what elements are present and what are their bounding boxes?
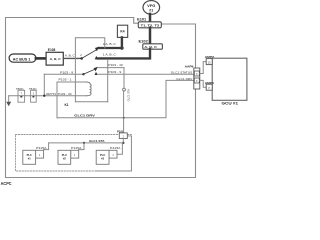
aux contact arrow upper — [94, 67, 98, 72]
svg-text:AAP9: AAP9 — [185, 64, 194, 68]
svg-text:3R7N: 3R7N — [46, 92, 56, 96]
arrow at right P103-9 wire end — [95, 72, 98, 75]
pin box P101 — [119, 133, 127, 139]
wire P101 to STA bus — [122, 139, 124, 143]
pin K — [194, 78, 199, 83]
connector AAP9 box — [194, 68, 200, 89]
svg-text:GLC1 STA: GLC1 STA — [126, 89, 130, 102]
svg-text:AC BUS 1: AC BUS 1 — [13, 57, 31, 61]
svg-text:GLC1 STA: GLC1 STA — [89, 139, 105, 143]
svg-text:#1: #1 — [149, 9, 153, 13]
PLC #3 box — [96, 150, 109, 164]
wire GLC1 DRV horizontal — [57, 80, 194, 117]
pin box PLC3 — [109, 150, 117, 158]
wire P103-1 — [57, 81, 86, 83]
svg-text:K1: K1 — [65, 103, 69, 107]
svg-text:P415A: P415A — [110, 146, 121, 150]
relay K1 box right edge wire — [107, 59, 109, 101]
svg-text:GCU #1: GCU #1 — [222, 102, 239, 106]
wire A,B,C from E108 to node 2 — [63, 57, 81, 59]
svg-text:1 A, B, C: 1 A, B, C — [103, 52, 116, 56]
svg-text:E101: E101 — [137, 18, 146, 22]
svg-text:GLC1 DRV: GLC1 DRV — [176, 77, 192, 81]
wire P103-9 left — [44, 73, 83, 75]
wire feeder VFG to E101 (thick) — [149, 14, 152, 22]
wire riser PLC2 — [79, 143, 84, 150]
wire GLC1 STA bus — [49, 142, 124, 144]
svg-text:GLC1 DRV: GLC1 DRV — [74, 113, 96, 117]
svg-text:E108: E108 — [48, 48, 56, 52]
splice circle on GLC1 STA — [123, 88, 126, 91]
svg-text:P315A: P315A — [36, 146, 47, 150]
pin box PLC1 — [36, 150, 44, 158]
svg-text:PLC: PLC — [27, 153, 32, 157]
svg-text:K4: K4 — [120, 30, 124, 34]
terminal box E101 T1,T2,T3 — [138, 22, 161, 28]
switch GLC1 aux blade — [84, 69, 95, 74]
junction on P103-9 — [82, 73, 84, 75]
svg-text:A, B, C: A, B, C — [65, 54, 75, 58]
wire AAP9 to AMP1 pin P — [200, 80, 206, 87]
svg-text:A, B, C: A, B, C — [144, 45, 158, 49]
AC BUS 1 stadium — [9, 54, 36, 62]
ground bus wire — [9, 95, 87, 97]
svg-text:VFG: VFG — [147, 4, 155, 8]
generator VFG #1 — [143, 1, 160, 15]
junction dot STA/DRV crossing — [123, 117, 125, 119]
wire feeder E102 down and left (thick) — [98, 49, 150, 58]
wire riser PLC3 — [117, 144, 122, 155]
wire P101 to PLC box edge — [96, 136, 131, 171]
terminal box E102 A,B,C — [143, 44, 163, 49]
wire feeder E101 to E102 (thick) — [149, 28, 152, 44]
wire drop P103-1 to GLC1 DRV — [56, 82, 58, 118]
wire drop from P103-9 to ground bus — [43, 74, 45, 96]
pin P box — [206, 84, 212, 90]
wire riser PLC1 — [44, 143, 49, 150]
junction dot PLC2 riser — [83, 142, 85, 144]
svg-text:P103 - 9: P103 - 9 — [108, 70, 122, 74]
wire bus link (very thick) — [36, 57, 47, 60]
switch contact arrow upper — [95, 47, 99, 52]
PLC #1 box — [23, 150, 36, 164]
wire K4 stub (thick) — [121, 37, 123, 48]
svg-text:E102: E102 — [139, 40, 148, 44]
svg-text:GLC1 STATUS: GLC1 STATUS — [171, 70, 193, 74]
wire 3 A,B,C (thick) — [99, 47, 123, 49]
svg-text:A, B, C: A, B, C — [50, 57, 62, 61]
feeder end arrow at 1 A,B,C — [95, 56, 98, 60]
relay K1 box bottom — [75, 101, 107, 103]
wire GLC1 STA vertical — [123, 68, 125, 133]
pin box PLC2 — [71, 150, 79, 158]
svg-text:P103 - 10: P103 - 10 — [108, 63, 123, 67]
terminal box E108 A,B,C — [46, 52, 63, 65]
junction node 2 — [80, 57, 83, 60]
wire AAP9 to AMP2 pin 19 — [200, 62, 206, 74]
svg-text:PLC: PLC — [100, 153, 105, 157]
svg-text:P103 - 1: P103 - 1 — [59, 78, 73, 82]
junction dot on ground bus — [43, 95, 45, 97]
frame top step to E101 box — [134, 18, 138, 24]
ACPC boundary frame — [6, 18, 196, 178]
PLC module dashed box — [16, 135, 132, 172]
svg-text:ACPC: ACPC — [1, 181, 12, 186]
wire P103-10 — [98, 67, 124, 69]
contactor K4 box — [117, 25, 127, 37]
pin C — [194, 71, 199, 76]
svg-text:P103 - 30: P103 - 30 — [58, 92, 72, 96]
svg-text:P115A: P115A — [71, 146, 82, 150]
switch GLC1 blade (main contacts) — [82, 50, 97, 59]
GCU #1 box — [212, 58, 247, 100]
svg-text:PLC: PLC — [62, 153, 67, 157]
svg-text:P103 - 9: P103 - 9 — [60, 70, 74, 74]
pin 19 box — [206, 59, 212, 65]
ground symbol — [8, 96, 10, 102]
coil K1 — [86, 82, 91, 96]
junction dot under P101 — [122, 142, 124, 144]
PLC #2 box — [58, 150, 71, 164]
wire GLC1 STATUS — [98, 73, 194, 75]
wire link from upper contact to ground bus — [75, 38, 104, 102]
